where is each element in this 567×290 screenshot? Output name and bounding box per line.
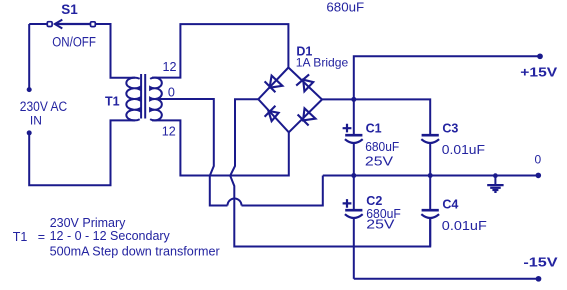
wire 230V AC left rail lower to primary bottom [29,120,135,185]
svg-text:0: 0 [168,86,175,100]
ground symbol bar 1 [487,184,503,186]
wire node to C1 top [353,99,355,135]
svg-text:12: 12 [163,60,177,74]
switch S1 terminal circle left [47,22,52,27]
capacitor C2 bottom lead to -15V rail [353,218,355,279]
capacitor C2 bottom curved plate [345,214,363,218]
svg-text:230V Primary: 230V Primary [50,216,126,230]
ground symbol stem [494,176,496,185]
capacitor C4 top plate [422,209,439,212]
svg-text:IN: IN [30,113,42,127]
wire center tap continues to 0 rail [242,176,323,206]
svg-text:230V AC: 230V AC [20,99,68,114]
bridge D1 diamond bottom-right edge [289,100,322,133]
wire hop arc over crossing [228,199,242,206]
wire +15V rail [354,56,540,99]
svg-text:C3: C3 [442,121,458,135]
ground symbol bar 4 [494,191,496,193]
junction dot 0 rail at C3 [428,173,433,178]
svg-text:0.01uF: 0.01uF [442,142,485,157]
wire 0 rail [323,175,538,177]
wire 0 rail to C4 top [429,176,431,211]
transformer T1 secondary winding [150,78,162,121]
wire from switch to transformer primary top [95,24,135,78]
bridge D1 diamond top-right edge [288,68,322,100]
svg-text:ON/OFF: ON/OFF [52,34,96,49]
svg-text:0: 0 [535,152,542,166]
capacitor C1 bottom curved plate [345,139,363,143]
bridge D1 diamond bottom-left edge [258,99,289,132]
capacitor C3 bottom curved plate [421,139,439,143]
svg-text:680uF: 680uF [326,0,364,14]
bridge D1 diamond top-left edge [258,68,288,100]
svg-text:T1: T1 [105,94,120,108]
svg-text:S1: S1 [61,2,78,17]
transformer T1 primary winding [126,78,139,121]
capacitor C1 plus sign [343,124,352,133]
terminal dot 230V upper [27,87,32,92]
svg-text:1A Bridge: 1A Bridge [296,56,349,70]
capacitor C4 bottom curved plate [421,214,439,218]
wire secondary top 12 to top rail and bridge top vertex [152,24,288,78]
switch S1 arm (arrow shaft) [55,23,90,25]
diode D1d bottom-right (triangle and cathode bar) [298,108,316,125]
capacitor C3 top lead already from bridge; C3 top plate [422,134,439,137]
capacitor C2 plus sign [343,199,352,208]
junction dot 0 rail at C1 [351,173,356,178]
svg-text:12 - 0 - 12 Secondary: 12 - 0 - 12 Secondary [50,229,171,243]
ground symbol junction dot [493,173,498,178]
terminal dot +15V [537,53,543,59]
svg-text:25V: 25V [365,154,393,169]
ground symbol bar 2 [490,187,501,189]
svg-text:12: 12 [162,125,176,139]
wire top-left from left rail to switch S1 [29,23,47,25]
switch S1 arrow head [55,20,63,29]
diode D1b top-right (triangle and cathode bar) [296,74,313,91]
capacitor C2 top plate [345,209,362,212]
terminal dot -15V [536,276,542,282]
svg-text:680uF: 680uF [365,139,399,154]
svg-text:-15V: -15V [523,255,558,269]
svg-text:500mA Step down transformer: 500mA Step down transformer [50,244,220,258]
terminal dot 0 output [536,173,542,179]
diode D1c bottom-left (triangle and cathode bar) [265,106,279,121]
capacitor C1 bottom lead to 0 rail [353,143,355,176]
diode D1a top-left (triangle and cathode bar) [265,76,283,93]
wire secondary bottom 12 down to bridge bottom vertex [152,120,289,175]
svg-text:+15V: +15V [520,66,558,80]
wire 0 rail to C2 top [353,176,355,211]
wire secondary center tap 0 down and to 0 rail [151,99,228,206]
wire bridge left vertex down to negative rail [230,99,430,246]
wire bridge right vertex to C3 [322,99,430,135]
transformer T1 core line left [140,74,142,119]
transformer T1 core line right [144,74,146,119]
capacitor C4 bottom lead [429,218,431,247]
wire -15V rail [354,278,538,280]
svg-text:T1 =: T1 = [13,230,45,244]
capacitor C3 bottom lead to 0 rail [429,143,431,176]
svg-text:25V: 25V [366,217,394,232]
junction dot bridge+ node [351,97,356,102]
ground symbol bar 3 [492,189,498,191]
capacitor C1 top plate [345,134,362,137]
svg-text:0.01uF: 0.01uF [442,218,487,233]
switch S1 terminal circle right [91,22,96,27]
wire 230V AC left rail upper [28,24,30,90]
terminal dot 230V lower [27,130,32,135]
svg-text:C1: C1 [366,121,382,135]
svg-text:C4: C4 [442,198,458,212]
